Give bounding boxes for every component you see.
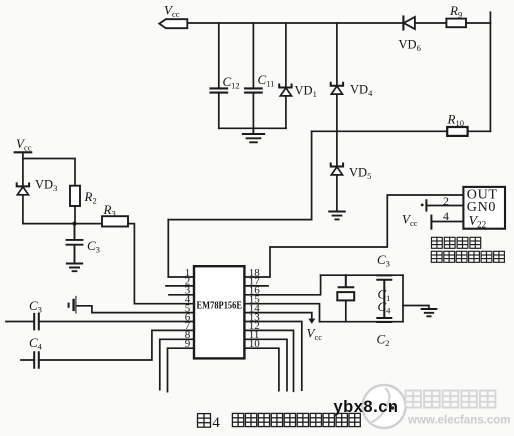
ground under VD5: [329, 212, 345, 220]
resistor R2: [70, 186, 80, 206]
wire VD3 bottom: [22, 195, 24, 224]
wire pin14 to Vcc arrow: [244, 313, 311, 319]
wire vertical to pin1: [167, 220, 169, 277]
wire pin16 to crystal top: [244, 275, 320, 295]
svg-text:www.elecfans.com: www.elecfans.com: [407, 415, 510, 427]
capacitor C12 plates: [211, 88, 228, 92]
caption figure label: [198, 414, 211, 428]
capacitor C11 plates: [245, 88, 262, 92]
svg-text:Vcc: Vcc: [402, 212, 418, 229]
watermark logo circle: [363, 385, 406, 428]
wire vertical x311: [311, 131, 313, 219]
svg-text:VD5: VD5: [349, 165, 371, 181]
wire pin7 with C4: [21, 330, 194, 360]
wire ground tap right: [403, 306, 429, 310]
resistor R9: [446, 19, 466, 28]
capacitor C3 right plates: [377, 275, 391, 322]
capacitor C4 bottom-left plates: [34, 352, 39, 368]
wire R9 to right vertical: [466, 22, 490, 24]
svg-text:C3: C3: [29, 298, 42, 315]
svg-text:VD3: VD3: [35, 177, 57, 193]
svg-text:R2: R2: [84, 189, 97, 206]
wire pin15 to crystal bottom: [244, 304, 319, 322]
wire R3 right: [128, 224, 194, 304]
svg-text:9: 9: [185, 338, 191, 350]
wire pin13: [244, 322, 301, 391]
svg-text:Vcc: Vcc: [16, 136, 32, 153]
wire pin18 to module OUT: [244, 195, 463, 277]
svg-text:R10: R10: [447, 112, 464, 129]
wire C12 branch: [218, 23, 220, 128]
svg-text:C2: C2: [377, 332, 390, 349]
wire pin17 stub: [244, 285, 268, 287]
wire VD6 to R9: [415, 22, 446, 24]
svg-text:C3: C3: [87, 238, 100, 255]
svg-text:Vcc: Vcc: [307, 326, 323, 343]
svg-text:4: 4: [443, 209, 449, 223]
node Vcc arrowhead: [308, 319, 315, 324]
wire junction row y224: [23, 223, 102, 225]
svg-text:C4: C4: [29, 335, 43, 352]
diode VD6: [402, 17, 404, 30]
wire pin10: [244, 348, 279, 390]
wire pin12: [244, 330, 293, 391]
wire crystal top rail: [321, 274, 403, 276]
wire right vertical: [489, 12, 491, 131]
label module chinese line1: [432, 237, 481, 248]
wire VD4 branch: [336, 23, 338, 211]
watermark elecfans chinese: [406, 391, 496, 408]
label module chinese line2: [431, 251, 504, 262]
svg-text:VD1: VD1: [295, 83, 317, 99]
wire pin5: [77, 306, 195, 313]
pin numbers left 1-9: [185, 267, 191, 350]
wire R10 left: [312, 130, 448, 132]
crystal Y1: [339, 275, 354, 287]
svg-text:R9: R9: [449, 3, 462, 20]
wire Vcc to R2 top: [23, 159, 75, 186]
svg-text:4: 4: [213, 415, 221, 431]
ground right of crystal: [422, 309, 437, 316]
wire pin11: [244, 339, 287, 390]
svg-text:C12: C12: [223, 74, 240, 91]
ground under C11: [243, 128, 264, 142]
wire pin1: [168, 276, 194, 278]
wire VD1 branch: [285, 23, 287, 128]
svg-text:VD4: VD4: [350, 82, 373, 98]
wire pin2 stub: [166, 285, 194, 287]
zener VD4: [331, 83, 343, 86]
resistor R10: [447, 127, 467, 136]
zener VD5: [331, 164, 343, 167]
svg-text:VD6: VD6: [399, 38, 421, 54]
wire crystal right vertical: [402, 275, 404, 322]
node Vcc bar module: [430, 216, 432, 229]
svg-text:R3: R3: [103, 202, 116, 219]
capacitor tick pin2 module: [425, 200, 427, 210]
capacitor pin5 contact symbol: [68, 304, 70, 307]
zener VD1: [279, 85, 291, 88]
zener VD3: [17, 183, 29, 186]
svg-text:C11: C11: [258, 72, 275, 89]
wire R10 right: [468, 130, 491, 132]
svg-text:2: 2: [443, 194, 449, 208]
wire R2 bottom: [74, 206, 76, 224]
node junction dot: [72, 222, 76, 226]
svg-text:EM78P156E: EM78P156E: [197, 300, 243, 312]
svg-text:GN0: GN0: [467, 200, 496, 215]
wire pin6 with C3: [6, 321, 194, 323]
wire horizontal y220: [168, 219, 311, 221]
svg-text:10: 10: [249, 338, 260, 350]
wire pin9: [168, 348, 195, 391]
module RF receiver box: [463, 187, 505, 229]
capacitor C3 bottom-left plates: [34, 314, 39, 330]
wire pin8: [160, 339, 194, 389]
wire module V22 row: [432, 221, 463, 223]
node Vcc left terminal: [15, 151, 32, 153]
pin numbers right 18-10: [249, 267, 260, 350]
wire bottom rail of caps: [219, 127, 286, 129]
op-amp U1 IC EM78P156E box: [194, 266, 244, 358]
wire C11 branch: [252, 23, 254, 128]
wire top rail: [187, 22, 403, 24]
svg-text:C3: C3: [377, 252, 390, 269]
resistor R3: [102, 216, 128, 226]
ground under C3 left: [67, 264, 82, 272]
wire Vcc left down: [22, 152, 24, 186]
capacitor C3 left plates: [67, 224, 83, 264]
wire crystal bottom rail: [320, 321, 404, 323]
node Vcc connector top: [159, 19, 187, 28]
caption chinese title: [232, 413, 360, 426]
wire pin3 stub: [169, 294, 194, 296]
wire module GN0 row: [427, 205, 463, 207]
svg-text:Vcc: Vcc: [164, 3, 180, 20]
